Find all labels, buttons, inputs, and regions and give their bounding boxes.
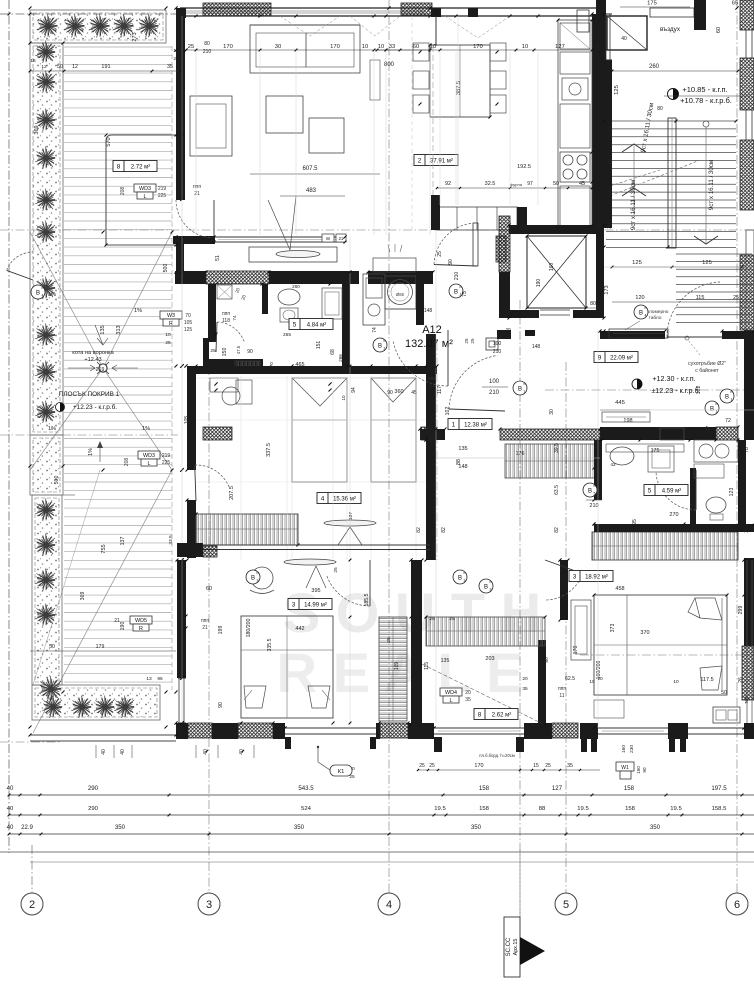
flat roof slope diagonals bbox=[30, 232, 103, 368]
svg-text:п: п bbox=[42, 286, 44, 290]
svg-text:15: 15 bbox=[30, 58, 36, 64]
svg-text:40: 40 bbox=[7, 824, 14, 831]
planter trees left bbox=[35, 41, 55, 64]
bedroom3-right nightstand bbox=[660, 428, 684, 440]
closet right shelf bbox=[571, 600, 591, 660]
svg-text:60: 60 bbox=[206, 586, 212, 592]
svg-text:25: 25 bbox=[426, 333, 431, 339]
svg-text:225: 225 bbox=[162, 460, 171, 466]
svg-text:50: 50 bbox=[553, 181, 559, 187]
svg-text:В: В bbox=[588, 489, 592, 495]
svg-text:373: 373 bbox=[610, 624, 616, 633]
svg-text:219: 219 bbox=[158, 186, 167, 192]
svg-text:210: 210 bbox=[493, 349, 502, 355]
svg-text:+10.78 - к.г.р.б.: +10.78 - к.г.р.б. bbox=[680, 96, 732, 105]
svg-text:9ст x 16.11 / 30см: 9ст x 16.11 / 30см bbox=[630, 180, 637, 230]
svg-text:10: 10 bbox=[362, 44, 368, 50]
svg-text:ппп: ппп bbox=[558, 686, 566, 692]
svg-text:60: 60 bbox=[413, 44, 419, 50]
svg-text:370: 370 bbox=[269, 362, 274, 370]
svg-text:25: 25 bbox=[333, 567, 339, 573]
svg-text:445: 445 bbox=[615, 400, 625, 406]
svg-text:25: 25 bbox=[449, 616, 455, 622]
dashed vertical dining bbox=[411, 16, 413, 232]
svg-text:442: 442 bbox=[295, 626, 304, 632]
bottom small row bbox=[418, 769, 600, 771]
svg-text:88: 88 bbox=[539, 806, 546, 812]
svg-text:150: 150 bbox=[636, 766, 641, 774]
dim row 3 bbox=[9, 833, 754, 835]
closet corridor bbox=[505, 444, 600, 478]
svg-text:230: 230 bbox=[629, 745, 635, 753]
top exterior wall bbox=[180, 7, 604, 9]
door bath 4.84 bbox=[217, 322, 244, 342]
svg-text:L: L bbox=[450, 698, 453, 704]
svg-text:96: 96 bbox=[157, 676, 163, 682]
svg-text:26: 26 bbox=[744, 527, 750, 533]
neighbor kitchen right bbox=[694, 440, 738, 462]
closet door bbox=[545, 574, 583, 600]
svg-text:120: 120 bbox=[635, 295, 644, 301]
svg-text:WD3: WD3 bbox=[143, 453, 155, 459]
svg-text:197.5: 197.5 bbox=[711, 785, 727, 792]
svg-text:158: 158 bbox=[625, 806, 636, 812]
hall entrance wall bbox=[600, 331, 665, 339]
svg-text:337.5: 337.5 bbox=[266, 443, 272, 457]
svg-text:80: 80 bbox=[204, 41, 210, 47]
svg-text:15: 15 bbox=[533, 763, 539, 769]
svg-text:179: 179 bbox=[96, 644, 105, 650]
svg-text:1%: 1% bbox=[88, 448, 94, 456]
svg-text:4.84 м²: 4.84 м² bbox=[307, 323, 326, 329]
svg-text:4: 4 bbox=[645, 314, 647, 318]
svg-text:5: 5 bbox=[594, 492, 596, 496]
sofa bbox=[250, 25, 360, 73]
svg-text:70: 70 bbox=[185, 313, 191, 319]
svg-text:2: 2 bbox=[418, 158, 422, 165]
living room left wall bbox=[176, 15, 185, 200]
svg-text:173: 173 bbox=[604, 285, 610, 294]
svg-text:13: 13 bbox=[146, 676, 152, 682]
left terrace door arc bbox=[7, 252, 33, 270]
svg-text:117: 117 bbox=[437, 386, 443, 394]
svg-text:35: 35 bbox=[522, 686, 528, 692]
svg-text:+12.30 - к.г.п.: +12.30 - к.г.п. bbox=[652, 374, 695, 383]
svg-text:42: 42 bbox=[610, 462, 616, 468]
svg-text:3: 3 bbox=[257, 579, 259, 583]
svg-text:1%: 1% bbox=[48, 426, 56, 432]
bedroom4 tv bbox=[324, 520, 376, 526]
svg-text:пл.б.борд. h=20см: пл.б.борд. h=20см bbox=[479, 753, 515, 758]
planter trees top bbox=[37, 14, 58, 38]
svg-text:151: 151 bbox=[316, 341, 322, 350]
svg-text:30: 30 bbox=[607, 159, 613, 165]
svg-text:10: 10 bbox=[522, 44, 528, 50]
W1 box bbox=[616, 762, 634, 771]
bottom exterior wall bbox=[176, 723, 188, 739]
svg-text:107: 107 bbox=[348, 512, 354, 520]
svg-text:92: 92 bbox=[445, 181, 451, 187]
svg-text:570: 570 bbox=[106, 137, 112, 146]
planter trees bottom bbox=[42, 696, 62, 719]
svg-text:90: 90 bbox=[387, 390, 393, 396]
room 8 terrace storage boundary bbox=[106, 135, 176, 245]
svg-text:299: 299 bbox=[738, 606, 744, 615]
svg-text:132.07 м²: 132.07 м² bbox=[405, 338, 453, 350]
svg-text:47.5: 47.5 bbox=[236, 345, 241, 354]
svg-text:3: 3 bbox=[573, 574, 577, 581]
svg-text:25: 25 bbox=[429, 763, 435, 769]
dining table bbox=[430, 45, 490, 117]
svg-text:10: 10 bbox=[378, 44, 384, 50]
svg-text:170: 170 bbox=[473, 44, 483, 50]
svg-text:2.72 м²: 2.72 м² bbox=[131, 165, 150, 171]
svg-text:150: 150 bbox=[222, 348, 228, 357]
svg-text:387.5: 387.5 bbox=[456, 81, 462, 96]
svg-text:210: 210 bbox=[589, 503, 598, 509]
svg-text:115: 115 bbox=[696, 295, 705, 301]
svg-text:269: 269 bbox=[96, 367, 105, 373]
svg-text:169: 169 bbox=[394, 662, 400, 671]
svg-text:25: 25 bbox=[419, 763, 425, 769]
door to terrace room bbox=[176, 200, 214, 238]
bedroom3-right wardrobe band bbox=[592, 532, 738, 560]
sink bbox=[562, 78, 588, 100]
svg-text:35: 35 bbox=[465, 697, 471, 703]
svg-text:В: В bbox=[458, 576, 462, 582]
svg-text:L: L bbox=[144, 194, 147, 200]
dim chain mid x440 bbox=[435, 230, 437, 723]
misc top-left ticks bbox=[29, 13, 32, 16]
svg-text:208: 208 bbox=[124, 458, 130, 467]
svg-text:45: 45 bbox=[579, 181, 585, 187]
svg-text:18.92 м²: 18.92 м² bbox=[585, 575, 608, 581]
bedroom4 desk bbox=[210, 378, 238, 392]
svg-text:3: 3 bbox=[206, 899, 212, 911]
svg-text:185.5: 185.5 bbox=[364, 593, 370, 606]
svg-text:524: 524 bbox=[301, 806, 312, 812]
svg-text:100: 100 bbox=[493, 341, 502, 347]
svg-text:10: 10 bbox=[673, 679, 679, 685]
svg-text:82: 82 bbox=[554, 527, 560, 533]
svg-text:207.5: 207.5 bbox=[229, 486, 235, 500]
svg-text:102: 102 bbox=[445, 407, 451, 416]
svg-text:22.9: 22.9 bbox=[21, 824, 33, 831]
svg-text:12.38 м²: 12.38 м² bbox=[464, 423, 487, 429]
svg-text:170: 170 bbox=[474, 763, 483, 769]
svg-text:25: 25 bbox=[733, 295, 739, 301]
svg-text:9: 9 bbox=[598, 355, 602, 362]
svg-text:219: 219 bbox=[162, 453, 171, 459]
svg-text:п: п bbox=[524, 382, 526, 386]
hall horizontal thin lines bbox=[600, 409, 754, 411]
svg-text:500: 500 bbox=[163, 264, 169, 273]
terrace decking bbox=[64, 46, 172, 48]
svg-text:158: 158 bbox=[479, 806, 490, 812]
svg-text:105: 105 bbox=[184, 416, 190, 425]
svg-text:335.5: 335.5 bbox=[267, 638, 273, 651]
dim chain x600 bbox=[597, 331, 599, 728]
svg-text:500: 500 bbox=[54, 476, 60, 485]
svg-text:135: 135 bbox=[441, 658, 450, 664]
svg-text:350: 350 bbox=[471, 824, 482, 831]
svg-text:W1: W1 bbox=[621, 765, 629, 771]
svg-text:4.59 м²: 4.59 м² bbox=[662, 489, 681, 495]
svg-text:10: 10 bbox=[165, 332, 171, 338]
svg-text:50: 50 bbox=[49, 644, 55, 650]
svg-text:33: 33 bbox=[389, 44, 395, 50]
bedroom3-left bed bbox=[241, 616, 333, 718]
svg-text:WD3: WD3 bbox=[139, 186, 151, 192]
kitchen nook appliances bbox=[363, 274, 385, 325]
svg-text:30: 30 bbox=[607, 223, 613, 229]
WD boxes bbox=[134, 184, 156, 192]
svg-text:175: 175 bbox=[647, 1, 657, 7]
planter borders bbox=[30, 10, 166, 43]
bedroom4 beds bbox=[292, 378, 347, 482]
svg-text:125: 125 bbox=[614, 85, 620, 95]
right terrace railing bbox=[746, 560, 748, 723]
svg-text:465: 465 bbox=[295, 362, 304, 368]
svg-text:36: 36 bbox=[595, 45, 601, 51]
svg-text:39.5: 39.5 bbox=[554, 443, 560, 453]
svg-text:72: 72 bbox=[725, 418, 731, 424]
bedroom3-left walls bbox=[177, 560, 186, 678]
svg-text:160: 160 bbox=[621, 745, 627, 753]
svg-text:160: 160 bbox=[549, 263, 555, 272]
grid axes dash-dot bbox=[8, 0, 10, 853]
svg-text:25: 25 bbox=[545, 763, 551, 769]
right wall top hatched bbox=[740, 0, 754, 30]
svg-text:290: 290 bbox=[88, 806, 99, 812]
svg-text:В: В bbox=[251, 576, 255, 582]
svg-text:148: 148 bbox=[424, 308, 433, 314]
svg-text:10: 10 bbox=[589, 679, 595, 685]
svg-text:1%: 1% bbox=[48, 292, 56, 298]
svg-text:WD4: WD4 bbox=[445, 690, 457, 696]
dim chain left wall bbox=[180, 133, 184, 137]
svg-text:68: 68 bbox=[330, 349, 336, 355]
svg-text:82: 82 bbox=[441, 527, 447, 533]
kitchen peninsula bbox=[437, 207, 517, 230]
hall sideboard bbox=[602, 412, 650, 422]
svg-text:Ø66: Ø66 bbox=[396, 292, 405, 297]
svg-text:313: 313 bbox=[116, 325, 122, 334]
bedroom3-left tv shelf bbox=[284, 559, 336, 565]
svg-text:2.62 м²: 2.62 м² bbox=[492, 713, 511, 719]
svg-text:R: R bbox=[139, 626, 143, 632]
svg-text:95: 95 bbox=[643, 436, 649, 442]
svg-text:191: 191 bbox=[101, 64, 110, 70]
svg-text:800: 800 bbox=[384, 62, 395, 68]
svg-text:97: 97 bbox=[527, 181, 533, 187]
kitchen right wall bbox=[592, 14, 604, 228]
svg-text:1%: 1% bbox=[134, 308, 142, 314]
svg-text:19.5: 19.5 bbox=[577, 806, 589, 812]
svg-text:158: 158 bbox=[479, 785, 490, 792]
svg-text:12: 12 bbox=[41, 64, 47, 70]
svg-text:25: 25 bbox=[386, 637, 392, 643]
stair stringer bbox=[668, 118, 676, 248]
svg-text:30: 30 bbox=[275, 44, 281, 50]
svg-text:90: 90 bbox=[218, 702, 224, 708]
svg-text:R: R bbox=[169, 321, 173, 327]
svg-text:80: 80 bbox=[657, 106, 663, 112]
svg-text:В: В bbox=[725, 395, 729, 401]
walkin closet room8 walls bbox=[411, 560, 422, 725]
grid bubbles bbox=[21, 893, 43, 915]
svg-text:158.5: 158.5 bbox=[712, 806, 727, 812]
svg-text:40: 40 bbox=[621, 36, 627, 42]
roof drain bbox=[99, 364, 107, 372]
svg-text:225: 225 bbox=[158, 193, 167, 199]
svg-text:п: п bbox=[594, 484, 596, 488]
svg-text:123: 123 bbox=[729, 488, 735, 497]
svg-text:пп: пп bbox=[326, 236, 331, 241]
wall between room4 and room3 bbox=[187, 544, 430, 546]
svg-text:208: 208 bbox=[120, 187, 126, 196]
svg-text:32.5: 32.5 bbox=[485, 181, 496, 187]
svg-text:210: 210 bbox=[489, 390, 500, 396]
svg-text:95: 95 bbox=[632, 519, 638, 525]
svg-text:117.5: 117.5 bbox=[700, 677, 713, 683]
svg-text:170: 170 bbox=[330, 44, 340, 50]
svg-text:25: 25 bbox=[173, 56, 179, 62]
svg-text:210: 210 bbox=[454, 272, 460, 281]
svg-text:4: 4 bbox=[42, 294, 44, 298]
heating panel bbox=[609, 329, 668, 338]
svg-text:1: 1 bbox=[524, 390, 526, 394]
svg-text:К1: К1 bbox=[338, 769, 345, 775]
svg-text:4: 4 bbox=[321, 496, 325, 503]
svg-text:В: В bbox=[518, 387, 522, 393]
1pct up arrow bbox=[99, 442, 101, 462]
svg-text:3: 3 bbox=[292, 602, 296, 609]
svg-text:п: п bbox=[645, 306, 647, 310]
svg-text:127: 127 bbox=[555, 44, 565, 50]
svg-text:Арх.15: Арх.15 bbox=[513, 939, 519, 956]
svg-text:105: 105 bbox=[184, 320, 193, 326]
svg-text:395: 395 bbox=[311, 588, 320, 594]
bedroom4 walls bbox=[187, 366, 437, 374]
svg-text:125: 125 bbox=[632, 260, 642, 266]
extra junction ticks bbox=[195, 15, 198, 18]
corridor walls bbox=[420, 429, 445, 440]
svg-text:15.36 м²: 15.36 м² bbox=[333, 497, 356, 503]
svg-text:5: 5 bbox=[293, 322, 297, 329]
right wall mid bbox=[744, 330, 754, 440]
svg-text:22.09 м²: 22.09 м² bbox=[610, 356, 633, 362]
svg-text:п: п bbox=[257, 571, 259, 575]
left building edge bottom bbox=[30, 734, 176, 736]
svg-text:2: 2 bbox=[29, 899, 35, 911]
svg-text:80: 80 bbox=[590, 301, 596, 307]
svg-text:табло: табло bbox=[649, 315, 662, 321]
svg-text:25: 25 bbox=[165, 340, 171, 346]
svg-text:25: 25 bbox=[437, 251, 443, 257]
svg-text:п: п bbox=[731, 390, 733, 394]
svg-text:30: 30 bbox=[549, 409, 555, 415]
svg-text:607.5: 607.5 bbox=[302, 166, 318, 172]
svg-text:п: п bbox=[464, 571, 466, 575]
top small box bbox=[577, 10, 589, 32]
coffee tables bbox=[266, 96, 303, 133]
svg-text:137: 137 bbox=[120, 537, 126, 546]
svg-text:10: 10 bbox=[173, 48, 179, 54]
svg-text:ппп: ппп bbox=[428, 376, 436, 382]
svg-text:26: 26 bbox=[738, 677, 744, 683]
svg-text:117: 117 bbox=[706, 426, 712, 434]
bedroom3-right bed bbox=[594, 595, 727, 695]
svg-text:260: 260 bbox=[649, 64, 660, 70]
svg-text:115: 115 bbox=[424, 662, 430, 670]
svg-text:въздух: въздух bbox=[660, 26, 681, 33]
svg-text:118: 118 bbox=[222, 318, 230, 324]
window swing dashes bbox=[280, 16, 340, 36]
svg-text:266: 266 bbox=[338, 354, 343, 362]
stair upper treads bbox=[676, 253, 752, 255]
svg-text:203: 203 bbox=[485, 656, 494, 662]
svg-text:+12.43: +12.43 bbox=[84, 357, 101, 363]
tv sideboard bbox=[249, 247, 337, 262]
svg-text:65: 65 bbox=[732, 1, 738, 7]
svg-text:3: 3 bbox=[490, 588, 492, 592]
bedroom4 wardrobe bbox=[196, 514, 298, 545]
svg-text:127: 127 bbox=[552, 785, 563, 792]
svg-text:2: 2 bbox=[384, 347, 386, 351]
svg-text:5: 5 bbox=[648, 488, 652, 495]
svg-text:483: 483 bbox=[306, 188, 317, 194]
svg-text:50: 50 bbox=[721, 690, 727, 696]
svg-text:фурна: фурна bbox=[510, 182, 523, 187]
svg-text:25: 25 bbox=[470, 338, 475, 344]
extension lines bedrooms bbox=[240, 376, 242, 560]
svg-text:±12.23 - к.г.р.б.: ±12.23 - к.г.р.б. bbox=[651, 386, 700, 395]
kitchen zone boundary line bbox=[432, 46, 434, 195]
svg-text:сухотръбие Ø2": сухотръбие Ø2" bbox=[688, 361, 726, 367]
svg-text:12: 12 bbox=[72, 64, 78, 70]
roof level bbox=[99, 364, 107, 372]
svg-text:В: В bbox=[710, 407, 714, 413]
svg-text:91.5: 91.5 bbox=[413, 605, 419, 615]
svg-text:В: В bbox=[454, 290, 458, 296]
svg-text:40: 40 bbox=[101, 749, 107, 755]
svg-text:273: 273 bbox=[132, 32, 138, 41]
svg-text:170: 170 bbox=[223, 44, 233, 50]
svg-text:90: 90 bbox=[642, 767, 647, 773]
WD3 window label bedroom4 bbox=[138, 451, 160, 459]
bath 4.59 toilet bbox=[706, 497, 726, 513]
svg-text:199: 199 bbox=[218, 626, 224, 635]
svg-text:210: 210 bbox=[588, 311, 597, 317]
svg-text:125: 125 bbox=[702, 260, 712, 266]
B circles bbox=[513, 381, 527, 395]
bedroom3 left door bbox=[327, 576, 370, 606]
stair down arrow bbox=[694, 236, 718, 244]
svg-text:62.5: 62.5 bbox=[565, 676, 575, 682]
living bottom wall band bbox=[175, 271, 206, 284]
hall bottom wall bbox=[600, 427, 716, 440]
svg-text:175: 175 bbox=[651, 448, 660, 454]
suhotrabie leader bbox=[688, 340, 700, 355]
svg-text:78: 78 bbox=[744, 447, 750, 453]
dim chain x350 bbox=[349, 237, 351, 728]
elevator shaft bbox=[509, 225, 604, 234]
svg-text:ппп: ппп bbox=[193, 184, 201, 190]
svg-text:20: 20 bbox=[465, 690, 471, 696]
extension lines living bbox=[195, 52, 197, 235]
svg-text:370: 370 bbox=[640, 630, 649, 636]
